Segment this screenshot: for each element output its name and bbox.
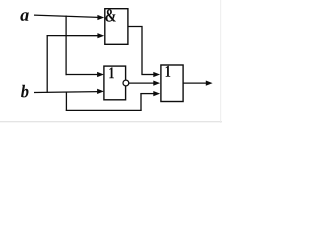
arrowhead into OR1 in1 (97, 72, 104, 77)
wire b branch up vertical (46, 35, 48, 93)
wire a branch to OR1 in1 (66, 74, 99, 76)
inverter bubble on OR1 output (123, 80, 129, 86)
arrowhead into OR2 in2 (153, 81, 160, 86)
wire b horizontal (34, 91, 98, 94)
arrowhead into AND in2 (97, 33, 104, 38)
node b label (21, 85, 29, 98)
wire b branch to AND in2 (47, 35, 99, 37)
arrowhead into OR2 in1 (153, 72, 160, 77)
page border right (220, 0, 222, 123)
page border bottom (0, 121, 222, 123)
arrowhead output (206, 81, 213, 86)
wire AND output (128, 27, 142, 75)
OR gate U3 label 1 (166, 66, 171, 77)
arrowhead a into AND in1 (97, 15, 104, 20)
AND gate label & (106, 9, 116, 21)
wire b branch down vertical (65, 92, 67, 111)
OR gate U2 box (104, 66, 126, 100)
wire a horizontal (34, 15, 98, 17)
OR gate U3 box (161, 65, 183, 102)
wire output (183, 82, 206, 84)
arrowhead b into OR1 in2 (97, 89, 104, 94)
wire bubble to OR2 in2 (129, 82, 154, 84)
OR gate U2 label 1 (109, 67, 114, 78)
arrowhead into OR2 in3 (153, 91, 160, 96)
wire AND out to OR2 in1 (141, 74, 154, 76)
wire bottom rail (66, 109, 142, 111)
wire a branch vertical (65, 16, 67, 76)
AND gate U1 box (105, 9, 128, 45)
wire rail up vertical (140, 93, 142, 111)
wire rail to OR2 in3 (140, 93, 154, 95)
node a label (20, 12, 28, 21)
